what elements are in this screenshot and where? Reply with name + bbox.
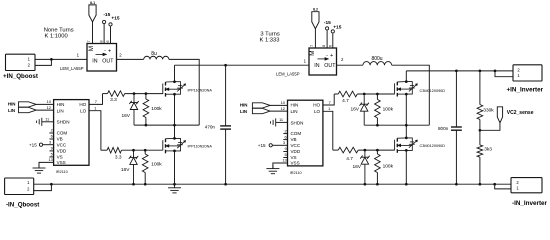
svg-text:VB: VB [57,137,63,142]
svg-text:3.3: 3.3 [110,97,117,103]
svg-text:2: 2 [285,128,287,133]
svg-text:-IN_Qboost: -IN_Qboost [6,201,39,208]
wire -15 to U2 pin8 [103,24,105,44]
wire J1 pin2 up to pin1 net [35,59,51,65]
wire J2 pin2 merge [34,184,52,190]
svg-text:IL1: IL1 [90,1,95,5]
svg-text:LIN: LIN [8,108,15,113]
svg-text:8: 8 [322,45,326,47]
svg-text:SHDN: SHDN [57,120,70,125]
svg-text:3: 3 [49,139,51,144]
svg-text:2: 2 [516,180,519,185]
svg-text:LO: LO [314,109,321,114]
resistor R5 4.7 [334,93,338,95]
stub U1 VS pin5 [49,156,53,158]
svg-text:VDD: VDD [291,149,301,154]
svg-text:HO: HO [79,102,86,107]
svg-text:K 1:333: K 1:333 [260,37,280,43]
svg-text:IR2110: IR2110 [290,171,302,175]
svg-text:1: 1 [304,58,307,63]
svg-text:K 1:1000: K 1:1000 [44,34,67,40]
wire R7 to Q4 gate [358,149,395,151]
svg-text:100k: 100k [151,161,162,167]
svg-text:7: 7 [95,99,97,104]
wire U4 pin2 to L2 [337,64,363,66]
wire IL2 to U4 pin7 [314,29,316,48]
connector J3 +IN_Inverter [513,65,542,81]
svg-text:+IN_Qboost: +IN_Qboost [3,73,38,80]
ground U1 VSS pin13 [39,162,54,168]
wire IL1 to U2 pin7 [92,22,94,44]
svg-text:4.7: 4.7 [346,156,353,162]
wire R3 to Q2 gate [122,149,163,151]
junction R8 top [376,149,379,152]
svg-text:-: - [104,48,106,54]
svg-text:HIN: HIN [57,102,65,107]
junction D3 top [363,93,366,96]
junction R8 bottom [376,183,379,186]
svg-text:6: 6 [329,45,333,47]
wire R5 to Q3 gate [357,93,395,95]
power -15 terminal [103,20,106,23]
stub U3 VS pin5 [283,157,287,159]
gate driver U3 IR2110 [288,100,323,166]
wire J1 pin1 to LEM U2 pin1 [35,58,87,60]
junction D2 top [132,149,135,152]
svg-text:13: 13 [48,157,52,162]
svg-text:LEM_LA55P: LEM_LA55P [60,66,84,71]
resistor R9 330k [479,71,481,105]
svg-text:1: 1 [27,180,30,185]
junction Q2 source rail [173,183,176,186]
svg-text:13: 13 [282,158,286,163]
capacitor C1 470n [225,65,227,126]
resistor R4 100k low [144,150,146,154]
junction R10 bottom [479,183,482,186]
junction R6 bottom [376,124,379,127]
svg-text:8: 8 [99,40,103,42]
transistor Q4 C3M0120090D low side right [395,137,418,153]
junction J2 merge [50,183,53,186]
svg-text:+IN_Inverter: +IN_Inverter [507,87,544,94]
svg-text:11: 11 [279,117,283,122]
junction J1 merge [50,58,53,61]
junction C1 top [224,64,227,67]
svg-text:2: 2 [119,53,122,58]
wire rail to J4 pin2 [495,183,511,185]
junction C2 top [455,70,458,73]
wire U1 LO pin1 [89,111,101,151]
wire HIN to U3 pin10 [270,104,287,106]
svg-text:7: 7 [310,45,314,47]
svg-text:VSS: VSS [57,160,66,165]
stub U1 COM pin2 [49,132,53,134]
junction PH2 [405,124,408,127]
svg-text:1: 1 [94,106,96,111]
wire output rail Vout2 [405,71,407,82]
svg-text:+: + [330,53,333,59]
resistor R7 4.7 low [333,149,338,151]
connector J4 -IN_Inverter [511,178,542,193]
wire VC2_sense to node [480,123,500,131]
port flag VC2_sense [497,107,502,123]
ground U3 SHDN pin11 [276,121,288,123]
junction J4 merge [493,183,496,186]
svg-text:1: 1 [516,185,519,190]
svg-text:IR2110: IR2110 [56,170,68,174]
svg-text:2: 2 [27,187,30,192]
wire LIN to U3 pin12 [270,110,287,112]
svg-text:LEM_LA55P: LEM_LA55P [276,71,300,76]
svg-text:VC2_sense: VC2_sense [507,110,534,116]
svg-text:-IN_Inverter: -IN_Inverter [512,200,548,207]
svg-text:HIN: HIN [240,102,248,107]
wire +15 to U4 pin6 [332,33,334,48]
svg-text:+15: +15 [258,143,266,148]
svg-text:IN: IN [314,63,319,69]
svg-text:9: 9 [51,146,53,151]
junction R4 bottom [144,183,147,186]
inductor L1 8u [144,56,169,59]
svg-text:100k: 100k [383,107,394,113]
junction D4 bottom [364,183,367,186]
svg-text:M: M [88,46,95,51]
junction C1 bottom [224,183,227,186]
current sensor U4 LEM_LA55P box [309,48,337,75]
junction J3 merge [494,70,497,73]
stub U1 VDD pin9 [49,150,53,152]
svg-text:9: 9 [285,146,287,151]
stub U3 VB pin6 [283,139,287,141]
svg-text:3.3: 3.3 [115,154,122,160]
ground main GND1 [168,184,181,193]
svg-text:IPP110N20NA: IPP110N20NA [188,88,213,92]
wire R1 to Q1 gate [125,93,163,95]
svg-text:VCC: VCC [291,143,301,148]
svg-text:C3M0120090D: C3M0120090D [420,144,446,148]
svg-text:800n: 800n [438,126,449,131]
svg-text:+: + [108,48,111,54]
svg-text:VS: VS [291,155,297,160]
svg-text:-15: -15 [324,20,331,26]
svg-text:5: 5 [285,152,287,157]
svg-text:OUT: OUT [324,63,336,69]
svg-text:2: 2 [517,67,520,72]
svg-text:VDD: VDD [57,149,67,154]
svg-text:7: 7 [87,40,91,42]
resistor R2 100k [145,94,147,99]
wire L2 to switch node drop [392,65,430,125]
svg-text:5: 5 [51,152,53,157]
svg-text:12: 12 [281,106,285,111]
junction VC2 node [479,129,482,132]
junction Q4 source rail [405,183,408,186]
svg-text:6: 6 [106,40,110,42]
svg-text:+15: +15 [333,24,341,30]
svg-text:12: 12 [47,105,51,110]
svg-text:3k3: 3k3 [484,146,492,152]
wire U3 LO pin1 [323,111,333,150]
svg-text:IPP110N20NA: IPP110N20NA [188,144,213,148]
port flag IL1 [89,5,96,22]
wire J2 pin1 ground rail [34,183,495,185]
zener D2 16V low [129,152,138,185]
wire phase node PH2 [364,124,429,126]
svg-text:100k: 100k [383,164,394,170]
junction PH1 [173,124,176,127]
port flag IL2 [312,12,319,29]
wire U1 HO pin7 [89,94,103,105]
svg-text:COM: COM [291,131,302,136]
capacitor C2 800n [455,71,457,127]
svg-text:COM: COM [57,131,68,136]
junction R4 top [144,149,147,152]
zener D4 16V low [360,152,369,185]
svg-text:HIN: HIN [8,101,16,106]
wire Q4 source to ground rail [405,150,407,184]
transistor Q1 IPP110N20NA high side left [163,80,186,96]
svg-text:2: 2 [28,63,31,68]
svg-text:1: 1 [28,56,31,61]
svg-text:330k: 330k [483,108,494,114]
wire U2 pin2 to L1 [117,58,144,60]
junction R9 top [479,70,482,73]
svg-text:+15: +15 [29,142,37,147]
svg-text:IL2: IL2 [313,8,318,12]
svg-text:LIN: LIN [291,109,298,114]
svg-text:800u: 800u [371,56,382,62]
junction D1 top [133,92,136,95]
stub U3 COM pin2 [283,133,287,135]
junction C2 bottom [455,183,458,186]
wire U3 HO pin7 [323,94,334,105]
svg-text:-15: -15 [103,12,110,18]
svg-text:HIN: HIN [291,103,299,108]
svg-text:+15: +15 [111,16,119,22]
power +15 terminal B [331,30,334,33]
svg-text:16V: 16V [352,164,361,170]
junction D4 top [364,149,367,152]
svg-text:C3M0120090D: C3M0120090D [420,89,446,93]
svg-text:6: 6 [51,134,53,139]
wire rail B to J3 pin2 [495,70,513,72]
resistor R1 3.3 [103,93,108,95]
svg-text:100k: 100k [151,106,162,112]
current sensor U2 LEM_LA55P box [87,44,117,72]
zener D1 16V [129,95,138,125]
gate driver U1 IR2110 [54,100,89,166]
wire output rail Vout1 [174,65,176,82]
svg-text:M: M [309,50,316,55]
svg-text:16V: 16V [121,113,130,119]
wire -15 to U4 pin8 [326,30,328,48]
transistor Q2 IPP110N20NA low side left [163,137,186,153]
wire J4 pin1 merge [495,184,511,189]
svg-text:7: 7 [329,100,331,105]
svg-text:IN: IN [92,58,97,64]
junction R2 top [145,92,148,95]
svg-text:10: 10 [47,99,52,104]
svg-text:2: 2 [341,57,344,62]
svg-text:4.7: 4.7 [342,98,349,104]
connector J1 +IN_Qboost [6,54,36,70]
svg-text:6: 6 [285,134,287,139]
ground U3 VSS pin13 [273,163,288,169]
svg-text:LIN: LIN [240,109,247,114]
svg-text:3: 3 [283,140,285,145]
svg-text:VCC: VCC [57,143,67,148]
svg-text:11: 11 [45,116,49,121]
wire LIN to U1 pin12 [36,109,53,111]
svg-text:LO: LO [80,108,87,113]
svg-text:1: 1 [77,53,80,58]
wire HIN to U1 pin10 [36,103,53,105]
junction R2 bottom [145,124,148,127]
stub U1 VB pin6 [49,138,53,140]
svg-text:-: - [326,53,328,59]
connector J2 -IN_Qboost [5,178,34,195]
junction R6 top [376,93,379,96]
resistor R10 3k3 [479,130,481,145]
svg-text:VS: VS [57,155,63,160]
svg-text:16V: 16V [121,167,130,173]
svg-text:VB: VB [291,137,297,142]
wire J3 pin1 merge [495,71,513,77]
svg-text:470n: 470n [205,124,216,129]
transistor Q3 C3M0120090D high side right [395,80,418,96]
resistor R3 3.3 low [101,149,107,151]
svg-text:8u: 8u [151,51,157,57]
wire +15 to U2 pin6 [110,26,112,43]
junction D2 bottom [132,183,135,186]
resistor R8 100k low [376,150,378,154]
svg-text:2: 2 [51,128,53,133]
ground U1 SHDN pin11 [42,121,54,123]
svg-text:OUT: OUT [102,58,114,64]
power -15 terminal B [326,27,329,30]
svg-text:16V: 16V [350,106,359,112]
wire Q2 source to ground rail [174,151,176,184]
svg-text:SHDN: SHDN [291,120,304,125]
resistor R6 100k [376,94,378,99]
stub U3 VDD pin9 [283,151,287,153]
svg-text:None Turns: None Turns [44,28,74,34]
power +15 terminal A [109,23,112,26]
svg-text:HO: HO [313,103,320,108]
svg-text:VSS: VSS [291,161,300,166]
zener D3 16V [360,96,369,126]
wire L1 to switch node drop [169,59,199,125]
svg-text:1: 1 [328,106,330,111]
svg-text:LIN: LIN [57,108,64,113]
svg-text:1: 1 [517,73,520,78]
wire phase node PH1 [134,124,199,126]
svg-text:10: 10 [281,100,286,105]
inductor L2 800u [363,62,392,66]
